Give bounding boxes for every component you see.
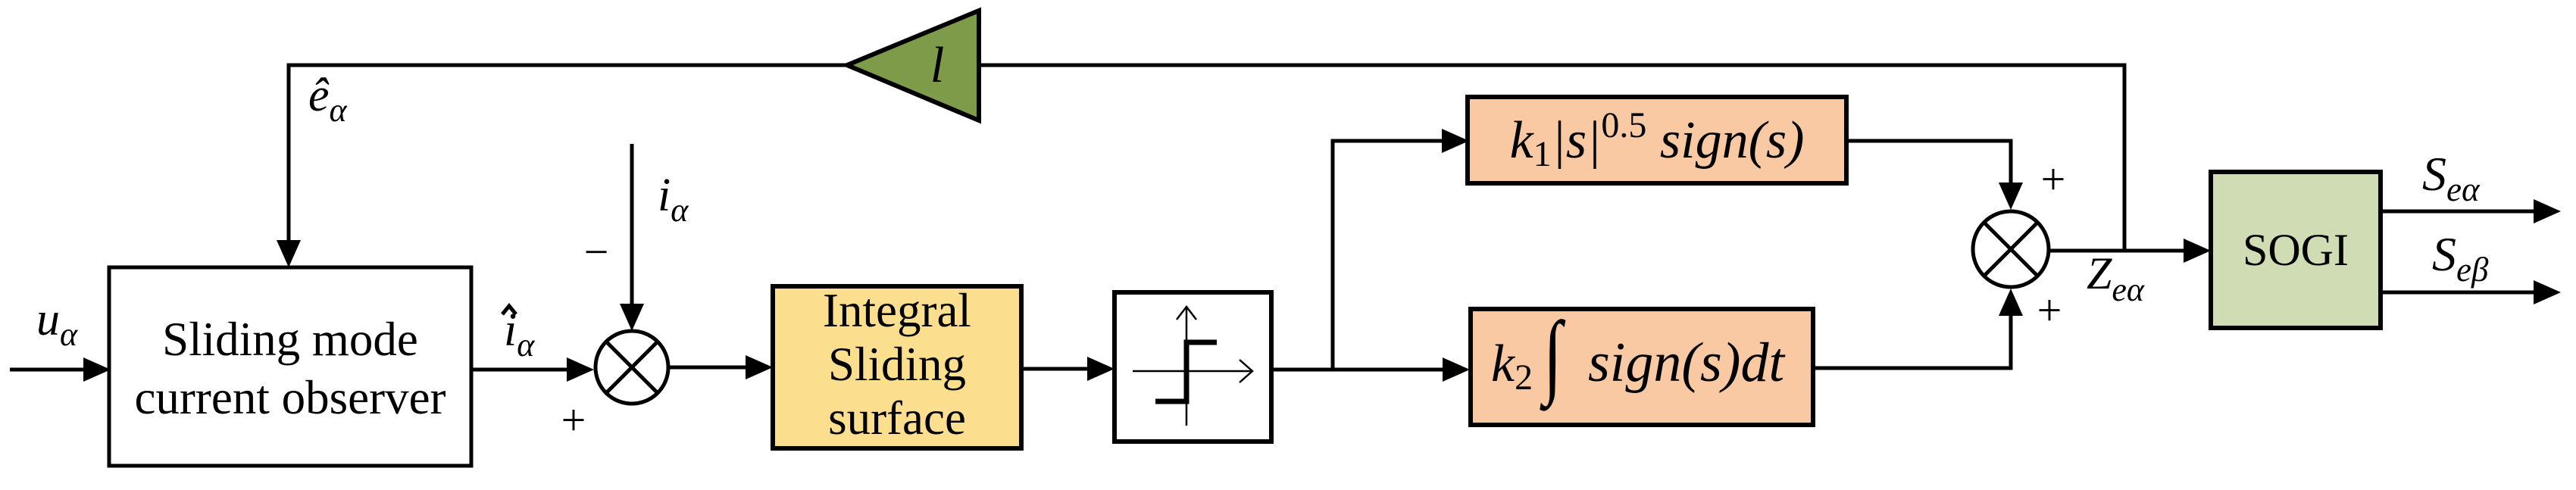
wire: k1 to S2 (1846, 141, 2023, 210)
svg-text:+: + (561, 395, 586, 445)
svg-text:Integral: Integral (823, 284, 971, 337)
relay y axis (1186, 307, 1188, 426)
wire: top feedback left segment (277, 65, 847, 267)
wire: surface to relay (1021, 357, 1114, 381)
relay step (1155, 342, 1217, 401)
wire: k2 to S2 (1813, 289, 2023, 368)
svg-text:surface: surface (828, 392, 966, 445)
node Z_e_alpha tap (979, 65, 2124, 251)
svg-text:Sliding mode: Sliding mode (162, 313, 418, 366)
block: integral sliding surface (773, 284, 1021, 448)
svg-text:SOGI: SOGI (2243, 225, 2349, 275)
svg-text:+: + (2041, 154, 2066, 204)
svg-text:l: l (930, 37, 945, 93)
relay x axis (1133, 370, 1252, 373)
wire: branch up to k1 (1333, 129, 1469, 370)
summing junction S2 (1973, 211, 2049, 287)
svg-text:current observer: current observer (134, 371, 445, 424)
wire: SOGI output S_e_alpha (2381, 199, 2561, 223)
wire: i_alpha input from top (620, 144, 644, 331)
gain triangle l (847, 11, 979, 120)
svg-text:sign(s)dt: sign(s)dt (1588, 332, 1786, 394)
wire: observer output i_hat (471, 357, 594, 382)
svg-text:Sliding: Sliding (828, 338, 966, 391)
summing junction S1 (596, 331, 668, 404)
svg-text:k1|s|0.5 sign(s): k1|s|0.5 sign(s) (1510, 105, 1805, 174)
wire: S1 to integral sliding surface (668, 355, 773, 379)
block: SOGI (2211, 172, 2381, 328)
svg-text:−: − (584, 227, 609, 276)
block: k1 |s|^0.5 sign(s) (1468, 97, 1846, 183)
block U1: sliding mode current observer (109, 267, 471, 466)
wire: SOGI output S_e_beta (2381, 280, 2561, 304)
block: k2 integral sign(s)dt (1471, 304, 1813, 425)
svg-text:+: + (2037, 286, 2062, 335)
wire: S2 output to SOGI with feedback tap (2050, 239, 2211, 263)
wire: relay output to k2 box (1271, 357, 1470, 382)
block: sign function (relay) (1114, 292, 1271, 442)
wire: input u_alpha (10, 357, 111, 382)
